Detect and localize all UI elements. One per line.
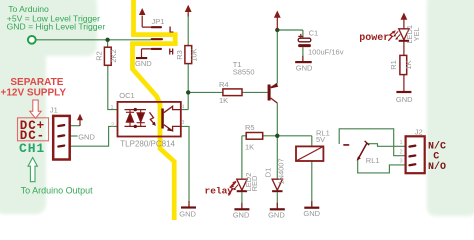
svg-text:GND: GND	[268, 210, 285, 219]
svg-text:1K: 1K	[219, 96, 228, 105]
svg-text:RED: RED	[250, 175, 259, 191]
optocoupler OC1 diode A (up)	[126, 110, 134, 127]
svg-text:YEL: YEL	[412, 27, 421, 41]
capacitor C1 bottom plate	[298, 44, 311, 47]
svg-text:1: 1	[111, 105, 114, 111]
VCC arrow above LED1	[401, 13, 408, 30]
wire relay NC contact to J2 pin NC	[367, 144, 406, 147]
optocoupler OC1 collector line	[164, 106, 181, 112]
wire R3 top to VCC arrow	[187, 16, 189, 46]
red annotation arrow at power	[388, 31, 394, 40]
svg-text:4: 4	[181, 104, 184, 110]
junction dot at R3/R4	[186, 90, 190, 94]
connector J2 pin 3 pad	[408, 163, 416, 167]
svg-text:S8550: S8550	[233, 68, 255, 77]
ground bar under JP1	[136, 57, 147, 59]
jumper JP1 vcc lead	[142, 16, 151, 28]
jumper JP1 pin L pad	[151, 26, 162, 28]
junction dot at collector node	[275, 134, 279, 138]
VCC arrow above T1 emitter	[274, 11, 281, 31]
diode D1	[272, 179, 282, 190]
relay contact pivot arrow	[357, 156, 361, 160]
svg-text:H: H	[169, 47, 174, 57]
annotation highlight right band	[427, 0, 474, 216]
svg-text:GND: GND	[396, 95, 413, 104]
optocoupler OC1 emitter arrow	[167, 127, 173, 131]
svg-text:J1: J1	[50, 106, 58, 115]
transistor T1 emitter arrow	[271, 83, 279, 89]
annotation highlight top-left block	[0, 0, 97, 56]
wire R3 bottom to junction	[187, 64, 189, 93]
svg-text:100uF/16v: 100uF/16v	[308, 48, 344, 57]
optocoupler OC1 emitter line	[164, 125, 181, 131]
lead R1 bottom to GND	[403, 74, 404, 91]
wire T1 collector down to junction	[276, 103, 278, 136]
lead LED1 cathode to R1	[403, 41, 404, 56]
optocoupler OC1 rail dots	[134, 108, 137, 111]
svg-text:RL1: RL1	[366, 156, 380, 165]
relay coil RL1 box	[296, 146, 323, 161]
ground symbol below C1	[302, 56, 303, 61]
highlighted signal path (yellow)	[133, 0, 176, 223]
resistor R5	[246, 133, 263, 140]
wire D1 bottom to GND	[276, 192, 278, 208]
resistor R1	[400, 55, 407, 74]
rotated grey labels	[95, 25, 421, 192]
VCC arrow above R3	[185, 5, 192, 17]
svg-text:1K: 1K	[245, 143, 254, 152]
resistor R4	[223, 89, 242, 96]
capacitor C1 top plate	[298, 38, 311, 42]
wire R5 left to LED2	[242, 136, 246, 179]
red hollow arrow down	[30, 100, 41, 118]
resistor R3	[185, 46, 192, 64]
svg-text:2: 2	[400, 150, 403, 156]
svg-text:OC1: OC1	[119, 91, 134, 100]
svg-text:2: 2	[111, 122, 114, 128]
transistor T1 base bar	[268, 85, 271, 101]
DC+ DC- box	[18, 118, 49, 141]
svg-text:1: 1	[400, 140, 403, 146]
wire relay common to J2 pin C	[339, 129, 405, 156]
svg-text:GND: GND	[233, 210, 250, 219]
resistor R2	[104, 47, 111, 65]
grey schematic labels	[50, 17, 423, 220]
connector J1 pin 3 pad	[57, 144, 65, 148]
connector J1 pin 1 pad	[57, 124, 65, 128]
LED1 symbol	[399, 29, 409, 40]
connector J1 body	[53, 116, 69, 160]
connector J2 pin 1 pad	[408, 144, 416, 148]
ground symbol below OC1 pin3	[188, 201, 189, 207]
svg-text:GND: GND	[135, 59, 152, 68]
relay contact arm	[358, 143, 367, 160]
svg-text:5V: 5V	[316, 135, 325, 144]
svg-text:C: C	[433, 151, 439, 162]
wire OC1 pin3 to GND	[181, 126, 189, 206]
svg-text:R3: R3	[175, 50, 184, 60]
optocoupler OC1 internal led rails	[125, 110, 147, 127]
red annotation arrow at relay	[228, 182, 235, 194]
svg-text:2K2: 2K2	[109, 49, 118, 62]
wire input terminal to JP1 middle pin	[36, 39, 151, 41]
wire T1 emitter up to +5V junction	[276, 30, 278, 84]
svg-text:R2: R2	[95, 51, 104, 61]
junction dot at R2 top	[105, 38, 109, 42]
wire junction to R2 top	[107, 40, 109, 47]
junction dot at +5V C1	[275, 28, 279, 32]
ground symbol below D1	[277, 203, 278, 209]
svg-text:JP1: JP1	[152, 17, 165, 26]
svg-text:N/O: N/O	[428, 161, 446, 173]
svg-text:GND: GND	[78, 133, 95, 142]
jumper JP1 vcc arrow	[139, 8, 146, 15]
svg-text:CH1: CH1	[19, 141, 45, 156]
optocoupler OC1 diode B (down)	[137, 110, 145, 127]
relay contact arm tick	[365, 141, 370, 145]
wire junction to C1	[277, 30, 303, 61]
relay contact common pad	[343, 144, 349, 146]
svg-text:+12V SUPPLY: +12V SUPPLY	[1, 88, 67, 99]
svg-text:power: power	[359, 33, 389, 44]
svg-text:10K: 10K	[190, 48, 199, 61]
transistor T1 emitter line	[271, 84, 278, 88]
svg-text:R1: R1	[389, 60, 398, 70]
optocoupler OC1 phototransistor bar	[161, 109, 164, 129]
svg-text:L: L	[169, 25, 174, 35]
annotation highlight left band	[0, 0, 46, 214]
ground symbol below LED2	[241, 203, 242, 209]
jumper JP1 pin H pad	[151, 48, 162, 50]
svg-text:GND: GND	[179, 210, 196, 219]
wire R2 bottom to OC1 pin1	[108, 65, 118, 109]
capacitor C1 plus sign	[298, 34, 303, 39]
ground symbol below R1	[396, 91, 411, 93]
wire RL1 bottom to GND	[311, 161, 313, 207]
ground symbol below RL1	[311, 201, 312, 207]
wire J1 pin1 to +12V arrow	[70, 125, 80, 127]
wire junction down to D1	[276, 136, 278, 179]
svg-text:GND: GND	[303, 209, 320, 218]
jumper JP1 gnd lead	[142, 49, 151, 57]
relay coil RL1 diagonal	[296, 146, 323, 161]
connector J2 body	[406, 136, 425, 173]
svg-text:R5: R5	[245, 123, 255, 132]
LED2 emission arrows	[232, 182, 238, 190]
wire junction down to OC1 pin4	[181, 92, 188, 109]
connector J1 pin 2 pad	[57, 134, 65, 138]
svg-text:TLP280/PC814: TLP280/PC814	[120, 139, 175, 148]
svg-text:J2: J2	[415, 128, 423, 137]
jumper JP1 pin mid pad	[151, 38, 163, 40]
wire J1 pin3 to OC1 pin2	[70, 126, 118, 146]
svg-text:D1: D1	[263, 168, 272, 178]
wire junction to R5 right	[263, 135, 278, 137]
VCC arrow at J1 pin1	[77, 114, 83, 126]
LED2 symbol	[237, 179, 247, 190]
green hollow arrow up	[28, 158, 37, 182]
svg-text:1K: 1K	[404, 60, 413, 69]
svg-text:To Arduino Output: To Arduino Output	[21, 186, 94, 196]
optocoupler OC1 light arrow	[150, 112, 155, 124]
transistor T1 collector line	[271, 98, 278, 103]
svg-text:R4: R4	[219, 80, 229, 89]
wire R4 right to T1 base	[242, 91, 268, 93]
connector J2 pin 2 pad	[408, 154, 416, 158]
optocoupler OC1 body	[118, 102, 181, 137]
svg-text:1N4007: 1N4007	[277, 158, 286, 184]
svg-text:3: 3	[400, 159, 403, 165]
wire relay pole to J2 pin NO	[358, 160, 406, 173]
wire junction to R4 left	[188, 91, 223, 93]
wire LED2 bottom to GND	[241, 192, 243, 208]
svg-text:relay: relay	[205, 185, 234, 196]
wire junction to relay coil RL1	[277, 136, 312, 147]
input terminal circle	[28, 36, 36, 44]
wire J1 pin2 to GND label	[70, 135, 78, 137]
svg-text:C1: C1	[309, 29, 319, 38]
svg-text:3: 3	[181, 120, 184, 126]
svg-text:GND: GND	[296, 64, 313, 73]
svg-text:GND = High Level Trigger: GND = High Level Trigger	[7, 22, 106, 32]
LED1 emission arrows	[394, 31, 400, 39]
